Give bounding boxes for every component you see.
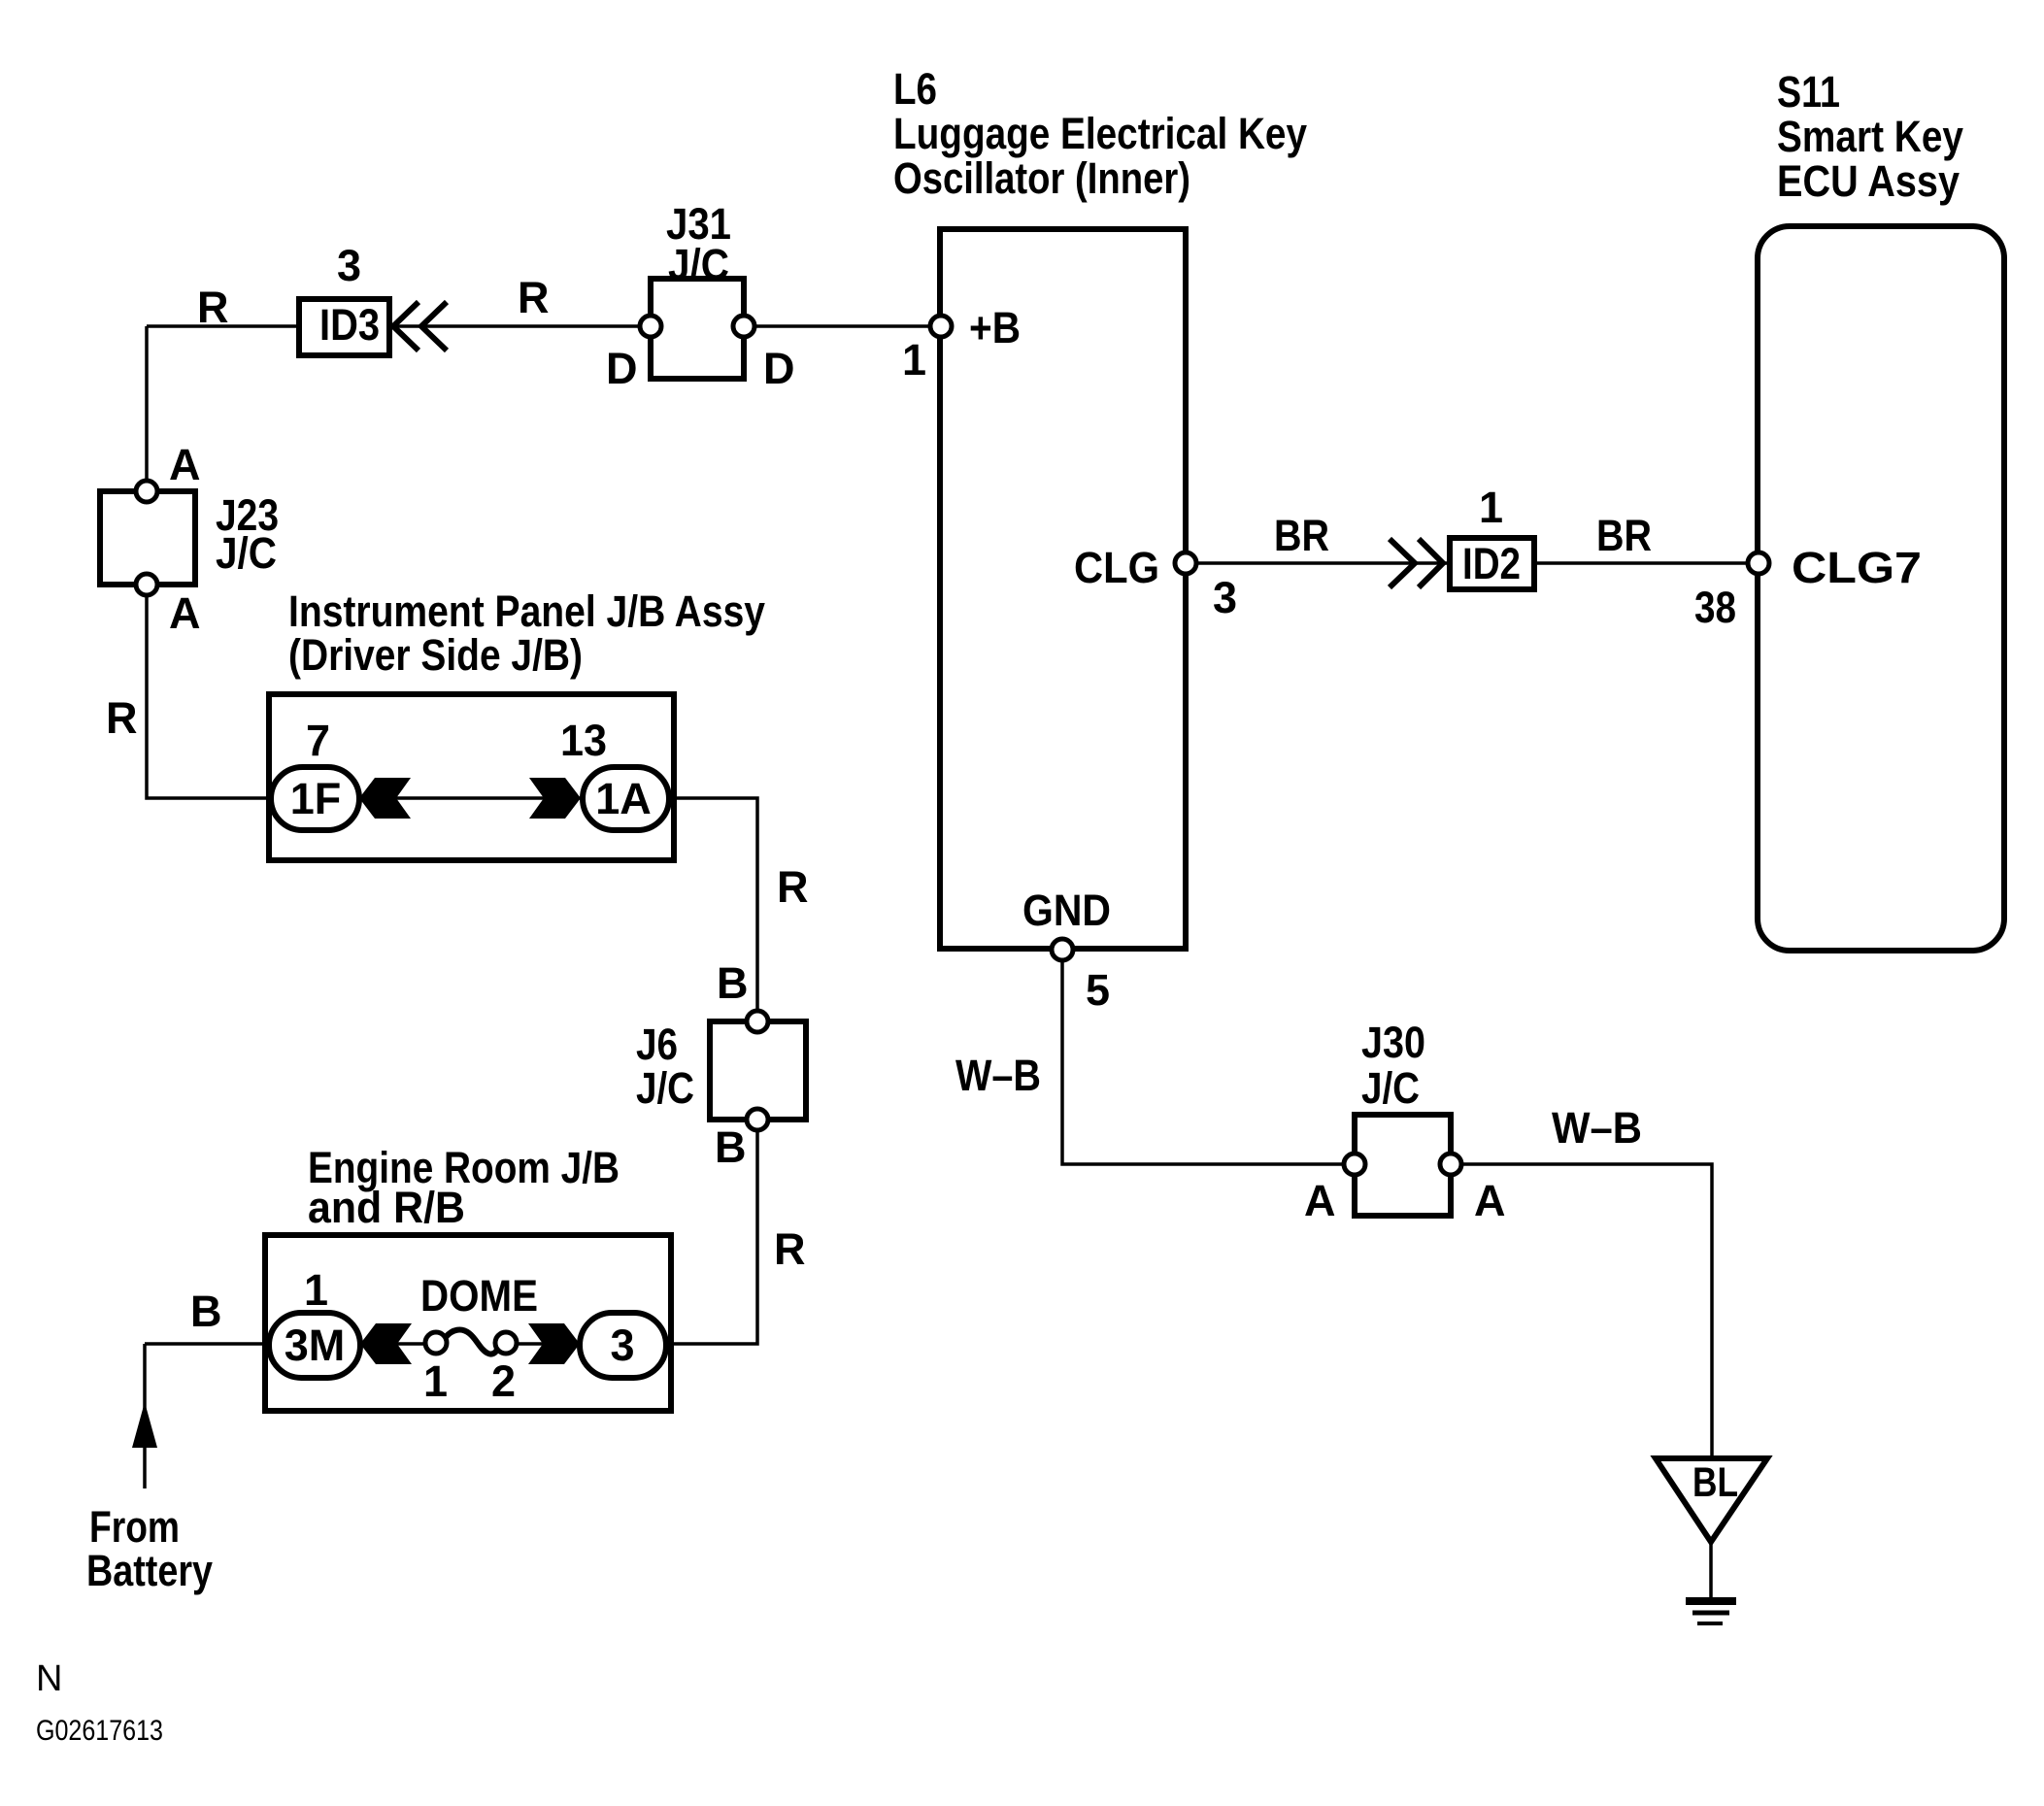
svg-text:3M: 3M xyxy=(285,1321,346,1370)
svg-text:13: 13 xyxy=(560,716,607,765)
svg-text:ECU Assy: ECU Assy xyxy=(1777,156,1960,206)
svg-text:Luggage Electrical Key: Luggage Electrical Key xyxy=(893,109,1307,158)
svg-text:Oscillator (Inner): Oscillator (Inner) xyxy=(893,153,1190,203)
svg-text:GND: GND xyxy=(1022,886,1111,935)
svg-text:Battery: Battery xyxy=(86,1546,213,1595)
svg-text:BR: BR xyxy=(1274,511,1329,560)
svg-text:A: A xyxy=(169,440,201,489)
svg-text:R: R xyxy=(197,283,229,332)
svg-text:2: 2 xyxy=(491,1356,516,1406)
svg-text:B: B xyxy=(717,958,749,1008)
svg-text:1A: 1A xyxy=(595,774,652,823)
svg-text:1: 1 xyxy=(1479,483,1503,532)
svg-text:CLG7: CLG7 xyxy=(1792,543,1922,592)
svg-text:J/C: J/C xyxy=(216,528,277,578)
svg-text:38: 38 xyxy=(1694,583,1736,632)
svg-text:3: 3 xyxy=(1213,573,1237,622)
svg-text:3: 3 xyxy=(337,241,361,290)
svg-text:J6: J6 xyxy=(636,1020,678,1069)
svg-text:1: 1 xyxy=(902,335,926,385)
svg-text:A: A xyxy=(1474,1176,1506,1225)
svg-text:N: N xyxy=(36,1658,62,1699)
svg-text:Smart Key: Smart Key xyxy=(1777,112,1963,161)
svg-text:From: From xyxy=(89,1502,180,1552)
svg-text:J/C: J/C xyxy=(668,240,729,289)
svg-text:(Driver Side J/B): (Driver Side J/B) xyxy=(288,630,583,680)
svg-text:BR: BR xyxy=(1596,511,1652,560)
svg-text:ID2: ID2 xyxy=(1462,539,1521,588)
svg-text:5: 5 xyxy=(1086,965,1110,1015)
svg-text:B: B xyxy=(715,1122,747,1172)
svg-text:W–B: W–B xyxy=(1552,1103,1642,1153)
svg-text:A: A xyxy=(1304,1176,1336,1225)
svg-text:J30: J30 xyxy=(1361,1018,1425,1067)
svg-text:CLG: CLG xyxy=(1074,543,1159,592)
svg-text:1F: 1F xyxy=(290,774,342,823)
svg-text:L6: L6 xyxy=(893,64,937,114)
svg-text:S11: S11 xyxy=(1777,67,1840,117)
svg-text:D: D xyxy=(606,344,638,393)
svg-text:J/C: J/C xyxy=(636,1063,694,1113)
svg-text:B: B xyxy=(190,1287,222,1336)
svg-text:W–B: W–B xyxy=(955,1051,1041,1100)
svg-text:A: A xyxy=(169,588,201,638)
svg-text:R: R xyxy=(518,273,550,322)
svg-text:1: 1 xyxy=(423,1356,448,1406)
svg-text:7: 7 xyxy=(306,716,330,765)
svg-text:and R/B: and R/B xyxy=(308,1183,465,1232)
svg-text:+B: +B xyxy=(969,303,1021,352)
svg-text:G02617613: G02617613 xyxy=(36,1715,163,1747)
svg-text:R: R xyxy=(774,1224,806,1274)
svg-text:DOME: DOME xyxy=(420,1271,538,1321)
svg-text:3: 3 xyxy=(610,1321,634,1370)
svg-text:BL: BL xyxy=(1692,1459,1738,1506)
svg-text:Instrument Panel J/B Assy: Instrument Panel J/B Assy xyxy=(288,586,765,636)
svg-text:J/C: J/C xyxy=(1361,1063,1420,1113)
svg-text:R: R xyxy=(777,862,809,912)
svg-text:D: D xyxy=(763,344,795,393)
svg-text:R: R xyxy=(106,693,138,743)
svg-text:1: 1 xyxy=(304,1265,328,1315)
svg-text:ID3: ID3 xyxy=(319,300,380,350)
